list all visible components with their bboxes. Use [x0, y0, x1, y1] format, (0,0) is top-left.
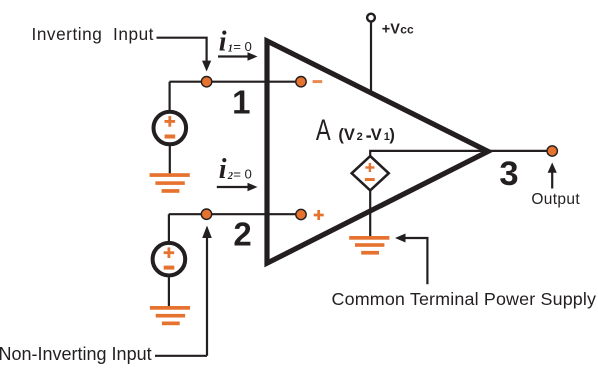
svg-text:(V: (V — [338, 126, 355, 144]
label Common Terminal Power Supply — [332, 289, 597, 309]
svg-text:= 0: = 0 — [233, 167, 252, 182]
node 1 — [201, 77, 211, 87]
plus sign at non-inverting terminal — [314, 210, 324, 220]
pin label 1 — [232, 84, 250, 121]
+Vcc supply terminal — [367, 14, 375, 22]
voltage source V1 — [154, 112, 187, 145]
svg-text:+V: +V — [382, 22, 400, 38]
gain label A (V2-V1) — [316, 114, 395, 147]
wire dependent source to ground — [369, 190, 371, 236]
current label i2 = 0 — [219, 154, 252, 185]
minus sign at inverting terminal — [313, 80, 323, 83]
svg-text:Common Terminal Power Supply: Common Terminal Power Supply — [332, 289, 597, 309]
wire common terminal leader with arrow — [395, 234, 427, 285]
pin label 3 — [499, 155, 518, 193]
label Non-Inverting Input — [0, 344, 152, 364]
wire +Vcc to op-amp — [370, 22, 372, 93]
node 2 — [201, 209, 211, 219]
wire source V2 to ground — [168, 277, 170, 306]
pin label 2 — [233, 216, 251, 253]
svg-text:V: V — [371, 126, 382, 144]
wire source V1 to ground — [169, 146, 171, 173]
arrow i1 direction — [218, 52, 258, 61]
svg-text:cc: cc — [400, 23, 414, 37]
svg-text:2: 2 — [357, 131, 363, 143]
wire inverting input leader with arrow to node 1 — [157, 38, 212, 72]
inverting terminal node (inside op-amp) — [296, 77, 306, 87]
svg-text:): ) — [389, 126, 395, 144]
label Inverting Input — [32, 24, 155, 44]
arrow up to output node — [548, 163, 557, 189]
op-amp U1 triangle body — [267, 41, 488, 263]
label Output — [531, 191, 580, 208]
svg-text:A: A — [316, 114, 331, 147]
ground G2 — [150, 306, 190, 325]
svg-text:i: i — [219, 154, 227, 185]
node 3 (output) — [547, 146, 557, 156]
wire down to source V2 — [168, 214, 170, 242]
non-inverting terminal node (inside op-amp) — [296, 209, 306, 219]
svg-text:Output: Output — [531, 191, 580, 208]
ground G1 — [150, 173, 190, 193]
arrow i2 direction — [217, 183, 258, 192]
voltage source V2 — [153, 243, 186, 276]
wire non-inverting input leader — [155, 355, 207, 357]
current label i1 = 0 — [219, 27, 252, 58]
wire dependent source to output node 3 — [370, 151, 547, 156]
svg-text:= 0: = 0 — [233, 39, 252, 54]
svg-text:3: 3 — [499, 155, 518, 193]
svg-text:Inverting Input: Inverting Input — [32, 24, 155, 44]
wire node 1 to inverting terminal — [170, 81, 301, 83]
svg-text:i: i — [219, 27, 227, 58]
svg-text:2: 2 — [233, 216, 251, 253]
arrow up to node 2 — [202, 226, 212, 356]
svg-text:Non-Inverting Input: Non-Inverting Input — [0, 344, 152, 364]
svg-text:1: 1 — [232, 84, 250, 121]
wire node 2 to non-inverting terminal — [169, 213, 300, 215]
wire down to source V1 — [169, 82, 171, 111]
label +Vcc — [382, 22, 414, 38]
ground G3 (common terminal) — [349, 236, 389, 255]
dependent source E1 (diamond) — [352, 156, 389, 190]
